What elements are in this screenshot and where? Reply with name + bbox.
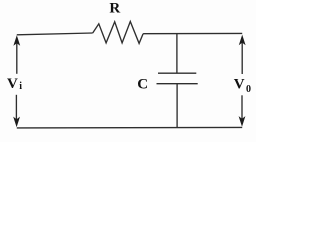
svg-text:V: V — [234, 76, 245, 92]
svg-text:0: 0 — [246, 84, 251, 95]
svg-text:R: R — [109, 1, 120, 17]
svg-text:V: V — [7, 76, 18, 92]
svg-text:C: C — [137, 76, 148, 92]
svg-text:i: i — [19, 81, 22, 92]
